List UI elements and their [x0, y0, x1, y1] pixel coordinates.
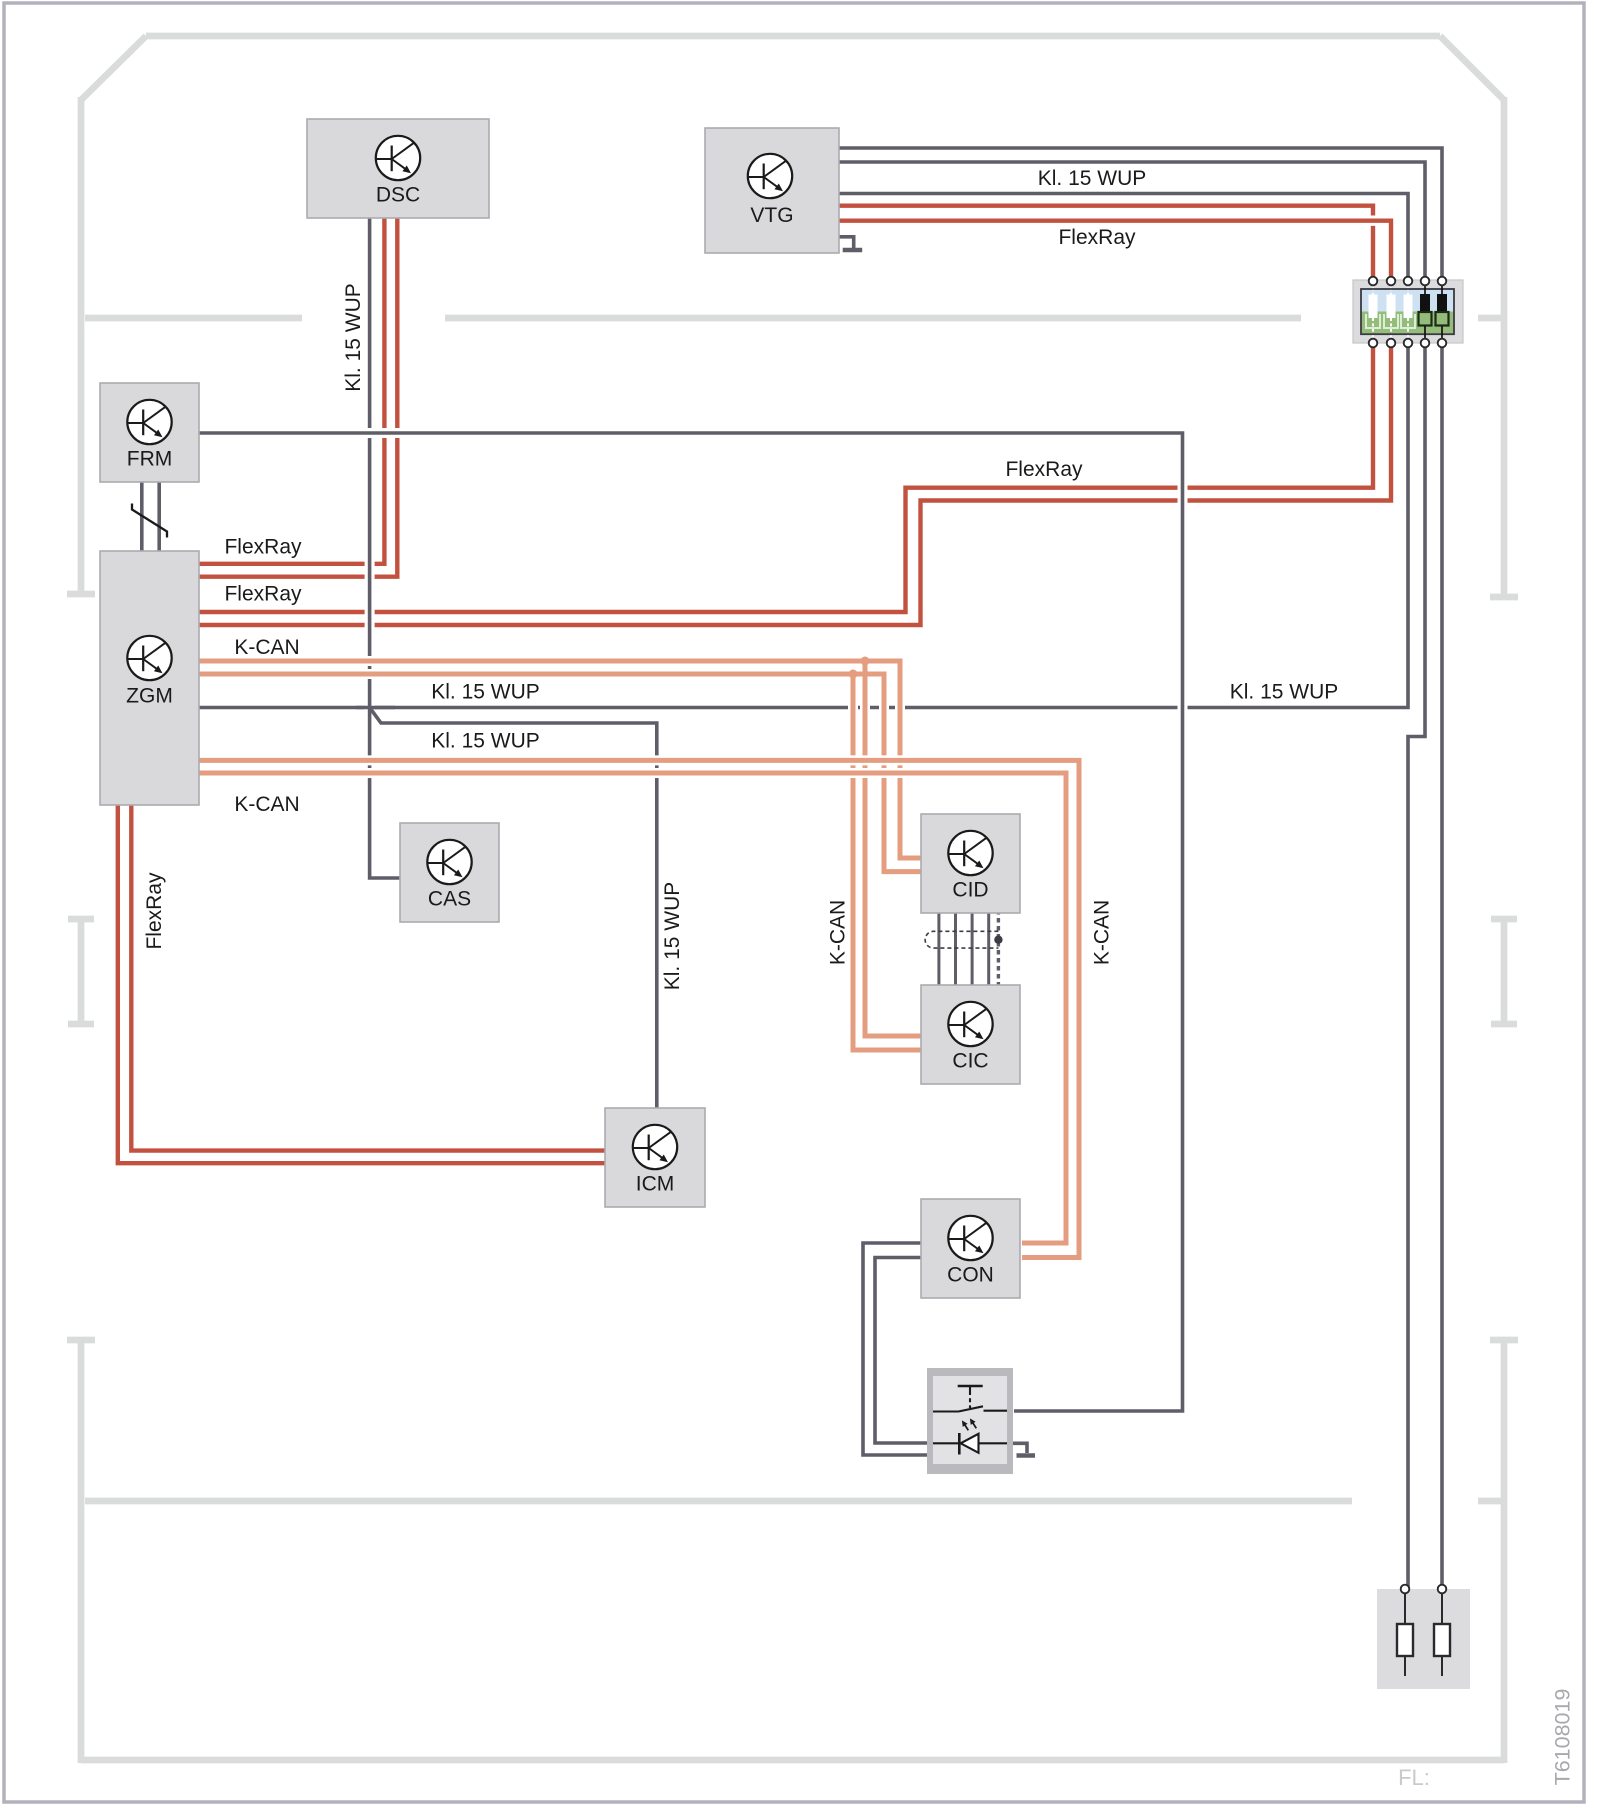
- svg-text:K-CAN: K-CAN: [1091, 900, 1114, 965]
- svg-text:FlexRay: FlexRay: [1005, 458, 1083, 481]
- svg-text:K-CAN: K-CAN: [827, 900, 850, 965]
- svg-text:Kl. 15 WUP: Kl. 15 WUP: [342, 283, 365, 392]
- svg-text:ICM: ICM: [636, 1173, 675, 1196]
- svg-text:CON: CON: [947, 1264, 994, 1287]
- svg-text:FlexRay: FlexRay: [1058, 226, 1136, 249]
- svg-text:K-CAN: K-CAN: [234, 793, 299, 816]
- svg-text:FlexRay: FlexRay: [143, 872, 166, 950]
- svg-text:Kl. 15 WUP: Kl. 15 WUP: [431, 680, 540, 703]
- svg-text:VTG: VTG: [750, 204, 793, 227]
- svg-text:Kl. 15 WUP: Kl. 15 WUP: [1038, 167, 1147, 190]
- svg-text:DSC: DSC: [376, 184, 420, 207]
- svg-text:CAS: CAS: [428, 888, 471, 911]
- svg-text:CID: CID: [952, 879, 988, 902]
- svg-text:FlexRay: FlexRay: [224, 536, 302, 559]
- svg-text:Kl. 15 WUP: Kl. 15 WUP: [661, 882, 684, 991]
- svg-text:FL:: FL:: [1398, 1765, 1430, 1790]
- svg-text:FRM: FRM: [127, 448, 173, 471]
- svg-text:ZGM: ZGM: [126, 685, 173, 708]
- svg-text:K-CAN: K-CAN: [234, 636, 299, 659]
- svg-text:FlexRay: FlexRay: [224, 583, 302, 606]
- svg-text:Kl. 15 WUP: Kl. 15 WUP: [431, 730, 540, 753]
- svg-text:T6108019: T6108019: [1551, 1689, 1575, 1786]
- svg-text:Kl. 15 WUP: Kl. 15 WUP: [1230, 680, 1339, 703]
- svg-text:CIC: CIC: [952, 1050, 988, 1073]
